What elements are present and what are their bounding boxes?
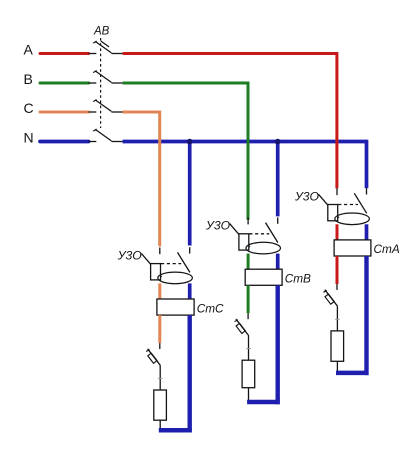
RCD UZO-A mechanical link (dashed) bbox=[338, 204, 358, 206]
switch SA upper stub bbox=[336, 284, 338, 290]
svg-text:У3О: У3О bbox=[117, 248, 143, 262]
wire switch SB to load bbox=[248, 336, 250, 361]
wire neutral return C (blue vertical) bbox=[187, 315, 191, 432]
svg-text:У3О: У3О bbox=[205, 219, 231, 233]
switch SA blade bbox=[325, 290, 338, 307]
load resistor RC bbox=[154, 390, 167, 420]
wire phase B below meter bbox=[247, 285, 250, 313]
RCD UZO-C phase blade bbox=[141, 253, 161, 277]
breaker AB pole A blade tick bbox=[93, 41, 96, 43]
breaker AB pole N blade tick bbox=[93, 129, 96, 131]
junction node N/branch B bbox=[275, 139, 281, 145]
svg-text:CmA: CmA bbox=[374, 242, 400, 256]
switch SC upper stub bbox=[159, 343, 161, 349]
load resistor RB bbox=[242, 360, 255, 388]
wire N drop to UZO B (blue vertical) bbox=[276, 142, 280, 217]
breaker AB pole A right contact bbox=[111, 53, 122, 55]
wire phase C below meter bbox=[158, 315, 161, 343]
RCD UZO-C differential transformer ellipse bbox=[158, 272, 193, 284]
wire bus B left segment bbox=[40, 82, 89, 85]
wire bus C left segment bbox=[40, 111, 89, 114]
wire switch SA to load bbox=[336, 306, 338, 331]
breaker AB pole N right contact bbox=[111, 141, 122, 143]
wire phase A below meter bbox=[336, 256, 339, 284]
wire load RA bottom lead bbox=[336, 361, 338, 373]
switch SA fuse body bbox=[325, 294, 334, 304]
RCD UZO-A neutral contact stub bbox=[366, 188, 368, 194]
breaker AB pole B blade bbox=[95, 71, 111, 82]
wire bus B right segment bbox=[123, 82, 248, 85]
wire neutral B below RCD bbox=[276, 254, 280, 270]
switch SB blade tip tick bbox=[235, 320, 238, 322]
svg-text:A: A bbox=[24, 41, 34, 57]
wire neutral return A (blue bottom) bbox=[336, 371, 369, 376]
breaker AB pole C right contact bbox=[111, 111, 122, 113]
wire bus A right segment bbox=[123, 52, 337, 55]
terminal tick on branch C bbox=[158, 377, 163, 379]
switch SB fuse body bbox=[236, 323, 245, 333]
wire phase C below RCD bbox=[158, 283, 161, 299]
RCD UZO-A actuator box bbox=[328, 205, 338, 221]
wire bus N right segment bbox=[123, 140, 367, 144]
meter CmC box bbox=[157, 299, 194, 315]
switch SB upper stub bbox=[247, 313, 249, 319]
RCD UZO-A phase blade bbox=[319, 194, 339, 218]
svg-text:У3О: У3О bbox=[294, 189, 320, 203]
wire N drop to UZO A (blue vertical) bbox=[365, 140, 369, 189]
RCD UZO-B mechanical link (dashed) bbox=[249, 233, 269, 235]
wire bus A left segment bbox=[40, 52, 89, 55]
breaker AB pole A blade bbox=[95, 42, 111, 53]
RCD UZO-C mechanical link (dashed) bbox=[161, 263, 181, 265]
RCD UZO-C actuator box bbox=[151, 264, 161, 280]
breaker AB pole C blade bbox=[95, 100, 111, 111]
breaker AB pole B blade tick bbox=[93, 71, 96, 73]
wire phase A below RCD bbox=[336, 224, 339, 240]
breaker AB pole N blade bbox=[95, 130, 111, 141]
wire neutral return B (blue bottom) bbox=[247, 400, 280, 405]
wire switch SC to load bbox=[159, 365, 161, 390]
wire neutral return A (blue vertical) bbox=[364, 256, 368, 375]
wire phase B drop (green vertical) bbox=[247, 82, 250, 220]
switch SA blade tip tick bbox=[323, 290, 326, 292]
svg-text:AB: AB bbox=[93, 26, 110, 38]
breaker AB pole A left contact bbox=[89, 53, 97, 55]
junction node N/branch C bbox=[187, 139, 193, 145]
breaker AB pole B left contact bbox=[89, 82, 97, 84]
wire neutral C below RCD bbox=[188, 283, 192, 299]
RCD UZO-B neutral contact stub bbox=[277, 217, 279, 223]
RCD UZO-B differential transformer ellipse bbox=[246, 242, 281, 254]
RCD UZO-B actuator box bbox=[239, 234, 249, 250]
wire bus C right segment bbox=[123, 111, 160, 114]
breaker AB pole B right contact bbox=[111, 82, 122, 84]
RCD UZO-C neutral contact stub bbox=[189, 247, 191, 253]
switch SC blade bbox=[148, 349, 161, 366]
wire phase B below RCD bbox=[247, 254, 250, 270]
wire neutral return C (blue bottom) bbox=[159, 428, 192, 433]
wire phase C drop (orange vertical) bbox=[158, 111, 161, 247]
breaker AB pole A auxiliary parallel line bbox=[101, 41, 109, 47]
svg-text:CmB: CmB bbox=[285, 272, 311, 286]
terminal tick on branch B bbox=[246, 348, 251, 350]
svg-text:B: B bbox=[24, 71, 33, 87]
load resistor RA bbox=[331, 331, 344, 361]
wire bus N left segment bbox=[40, 140, 89, 144]
RCD UZO-A differential transformer ellipse bbox=[335, 213, 370, 225]
terminal tick on branch A bbox=[335, 318, 340, 320]
wire neutral A below RCD bbox=[365, 224, 369, 240]
wire phase A drop (red vertical) bbox=[335, 52, 338, 188]
meter CmB box bbox=[245, 269, 282, 285]
RCD UZO-B neutral blade bbox=[266, 223, 278, 243]
breaker AB pole C left contact bbox=[89, 111, 97, 113]
RCD UZO-B phase blade bbox=[230, 224, 250, 248]
RCD UZO-C phase contact stub bbox=[159, 247, 161, 254]
wire load RC bottom lead bbox=[159, 420, 161, 431]
svg-text:C: C bbox=[24, 100, 34, 116]
meter CmA box bbox=[334, 240, 371, 256]
RCD UZO-A phase contact stub bbox=[336, 188, 338, 195]
breaker AB mechanical link (dashed) bbox=[100, 38, 102, 128]
switch SC blade tip tick bbox=[146, 350, 149, 352]
RCD UZO-B phase contact stub bbox=[247, 218, 249, 225]
RCD UZO-C neutral blade bbox=[178, 252, 190, 272]
svg-text:N: N bbox=[24, 129, 34, 145]
switch SC fuse body bbox=[148, 353, 157, 363]
RCD UZO-A neutral blade bbox=[354, 193, 366, 213]
breaker AB pole C blade tick bbox=[93, 100, 96, 102]
breaker AB pole N left contact bbox=[89, 141, 97, 143]
wire load RB bottom lead bbox=[248, 388, 250, 403]
wire N drop to UZO C (blue vertical) bbox=[188, 142, 192, 246]
svg-text:CmC: CmC bbox=[197, 301, 224, 315]
wire neutral return B (blue vertical) bbox=[276, 285, 280, 404]
switch SB blade bbox=[236, 319, 249, 336]
